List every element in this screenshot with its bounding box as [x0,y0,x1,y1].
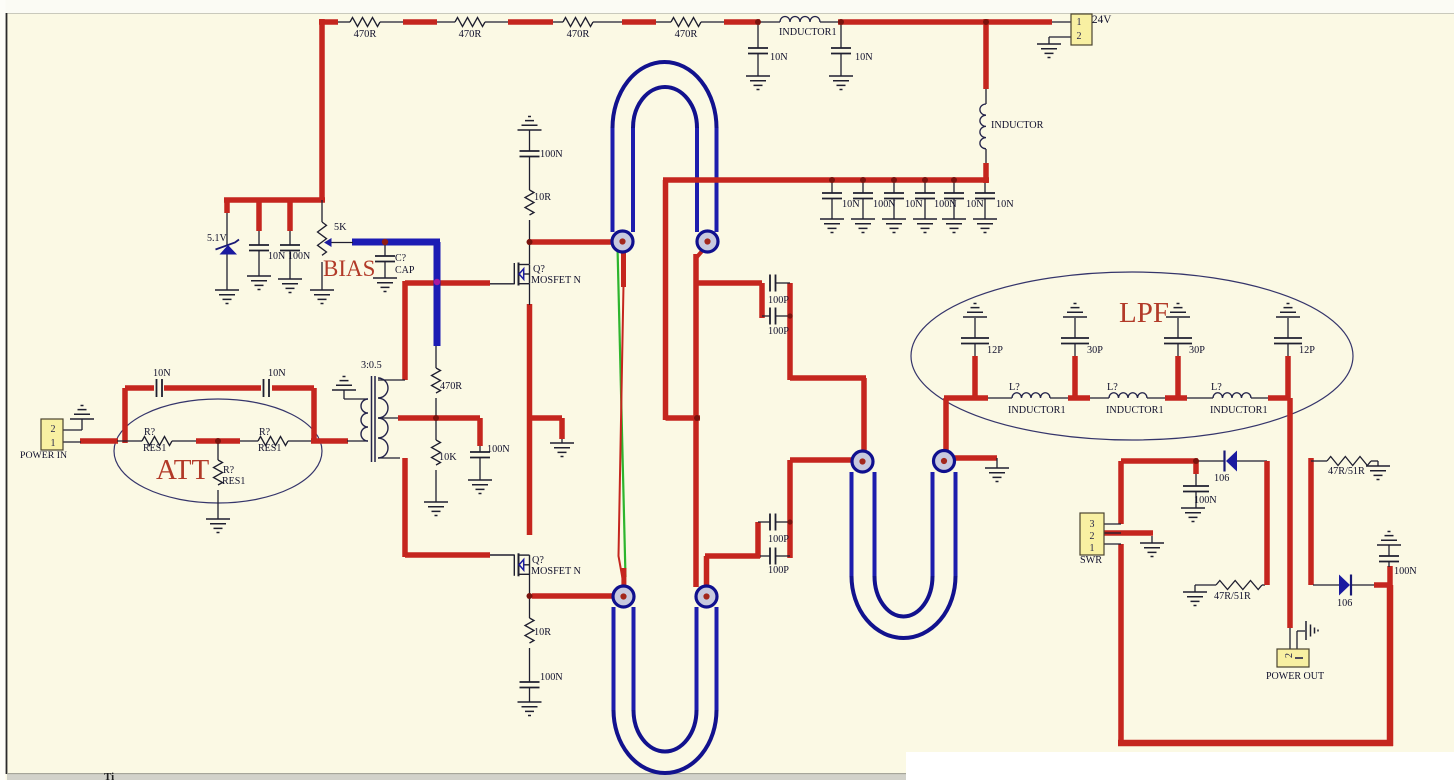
svg-text:1: 1 [1077,17,1082,28]
svg-text:R?: R? [259,427,271,438]
svg-text:470R: 470R [440,381,462,392]
svg-text:R?: R? [223,465,235,476]
svg-text:10K: 10K [439,452,457,463]
svg-text:24V: 24V [1092,14,1111,26]
svg-text:30P: 30P [1087,345,1103,356]
svg-text:INDUCTOR1: INDUCTOR1 [1210,405,1268,416]
svg-text:100N: 100N [288,251,310,262]
svg-text:5.1V: 5.1V [207,233,228,244]
svg-text:470R: 470R [354,29,377,40]
svg-text:10R: 10R [534,192,551,203]
svg-text:L?: L? [1211,382,1222,393]
svg-text:100N: 100N [934,199,957,210]
svg-text:10R: 10R [534,627,551,638]
svg-text:106: 106 [1337,598,1352,609]
svg-text:100N: 100N [540,672,563,683]
svg-text:10N: 10N [905,199,923,210]
svg-text:BIAS: BIAS [323,256,375,281]
svg-text:L?: L? [1107,382,1118,393]
svg-text:2: 2 [1077,31,1082,42]
svg-text:100N: 100N [873,199,896,210]
svg-text:10N: 10N [966,199,984,210]
svg-text:3: 3 [1090,519,1095,530]
svg-text:10N: 10N [268,251,285,262]
svg-text:47R/51R: 47R/51R [1328,466,1365,477]
svg-text:MOSFET N: MOSFET N [531,275,582,286]
svg-text:100N: 100N [540,149,563,160]
svg-text:470R: 470R [567,29,590,40]
svg-text:LPF: LPF [1119,297,1169,329]
svg-text:100P: 100P [768,565,789,576]
svg-text:10N: 10N [153,368,171,379]
svg-text:12P: 12P [987,345,1003,356]
svg-text:C?: C? [395,253,407,264]
svg-text:CAP: CAP [395,265,415,276]
svg-text:1: 1 [1090,543,1095,554]
svg-text:100P: 100P [768,326,789,337]
svg-text:Q?: Q? [532,555,544,566]
svg-text:470R: 470R [459,29,482,40]
svg-text:10N: 10N [855,52,873,63]
svg-text:INDUCTOR1: INDUCTOR1 [1008,405,1066,416]
svg-text:10N: 10N [996,199,1014,210]
svg-text:POWER OUT: POWER OUT [1266,671,1324,682]
svg-text:5K: 5K [334,222,347,233]
svg-text:1: 1 [51,438,56,449]
svg-text:100P: 100P [768,534,789,545]
svg-text:30P: 30P [1189,345,1205,356]
svg-text:10N: 10N [268,368,286,379]
svg-text:INDUCTOR1: INDUCTOR1 [1106,405,1164,416]
svg-text:2: 2 [1090,531,1095,542]
svg-text:47R/51R: 47R/51R [1214,591,1251,602]
svg-text:470R: 470R [675,29,698,40]
svg-text:106: 106 [1214,473,1229,484]
svg-text:ATT: ATT [156,454,209,486]
svg-text:L?: L? [1009,382,1020,393]
svg-text:POWER IN: POWER IN [20,450,67,461]
svg-text:10N: 10N [842,199,860,210]
svg-text:Q?: Q? [533,264,545,275]
svg-text:RES1: RES1 [258,443,281,454]
svg-text:INDUCTOR: INDUCTOR [991,120,1044,131]
svg-text:3:0.5: 3:0.5 [361,360,382,371]
svg-text:R?: R? [144,427,156,438]
svg-text:RES1: RES1 [143,443,166,454]
svg-text:INDUCTOR1: INDUCTOR1 [779,27,837,38]
svg-text:100N: 100N [1194,495,1217,506]
svg-text:Ti: Ti [104,771,114,780]
svg-text:2: 2 [1284,653,1295,658]
svg-text:100P: 100P [768,295,789,306]
svg-text:10N: 10N [770,52,788,63]
svg-text:100N: 100N [487,444,510,455]
svg-text:RES1: RES1 [222,476,245,487]
svg-text:MOSFET N: MOSFET N [531,566,582,577]
svg-text:SWR: SWR [1080,555,1102,566]
svg-text:2: 2 [51,424,56,435]
svg-text:12P: 12P [1299,345,1315,356]
svg-text:100N: 100N [1394,566,1417,577]
